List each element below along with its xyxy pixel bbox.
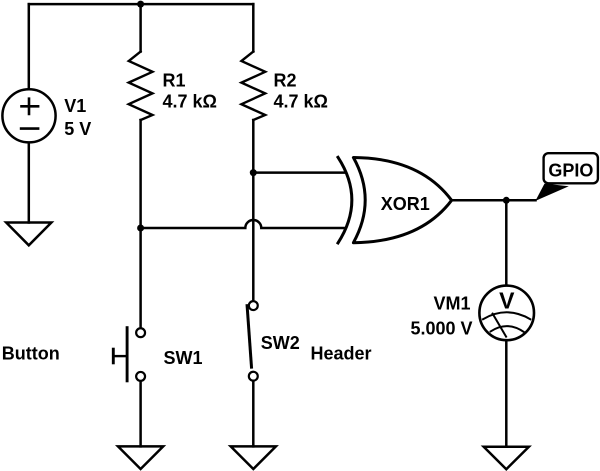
- svg-text:4.7 kΩ: 4.7 kΩ: [163, 92, 217, 112]
- resistor R2: [241, 52, 265, 121]
- wire XOR output: [452, 199, 536, 202]
- svg-text:R1: R1: [163, 70, 186, 90]
- node output junction: [503, 197, 510, 204]
- switch SW1 pushbutton contacts: [136, 328, 145, 337]
- ground SW1: [118, 446, 163, 469]
- wire R1 top: [139, 4, 142, 51]
- VM1 needle: [492, 313, 507, 338]
- ground VM1: [484, 447, 529, 470]
- V1 minus terminal mark: [20, 127, 40, 130]
- flag pointer GPIO: [535, 184, 568, 201]
- voltage source V1: [2, 89, 55, 142]
- svg-text:VM1: VM1: [433, 294, 470, 314]
- switch SW2 contacts: [249, 301, 258, 310]
- svg-text:5.000 V: 5.000 V: [410, 318, 472, 338]
- svg-text:XOR1: XOR1: [381, 194, 430, 214]
- svg-text:SW1: SW1: [164, 348, 203, 368]
- SW2 lever: [247, 304, 252, 368]
- svg-text:SW2: SW2: [261, 333, 300, 353]
- ground SW2: [231, 446, 276, 469]
- wire V1 bottom: [28, 143, 31, 223]
- wire top rail from V1 to R2: [29, 3, 254, 6]
- svg-text:Button: Button: [2, 344, 60, 364]
- node R2 / top input wire junction: [250, 169, 257, 176]
- wire R2 top: [252, 4, 255, 51]
- GPIO label box: [544, 153, 598, 183]
- voltmeter VM1: [479, 286, 534, 341]
- wire R1 to SW1: [139, 120, 142, 327]
- wire to VM1: [505, 200, 508, 284]
- svg-text:R2: R2: [274, 70, 297, 90]
- SW1 actuator: [126, 326, 129, 382]
- svg-text:5 V: 5 V: [64, 119, 91, 139]
- wire SW1 to ground: [139, 382, 142, 446]
- XOR1 extra input arc: [338, 157, 352, 243]
- svg-text:V1: V1: [64, 96, 86, 116]
- resistor R1: [129, 52, 153, 121]
- VM1 meter scale arcs: [483, 312, 530, 319]
- node top rail / R1 junction: [137, 1, 144, 8]
- wire XOR bottom input with hop over R2: [141, 220, 345, 228]
- svg-text:V: V: [499, 287, 515, 313]
- wire R2 to SW2: [252, 120, 255, 300]
- ground V1: [6, 223, 51, 246]
- wire VM1 bottom: [505, 341, 508, 446]
- wire V1 top: [28, 4, 31, 89]
- svg-text:GPIO: GPIO: [548, 160, 593, 180]
- XOR gate XOR1 body: [353, 158, 451, 243]
- svg-text:Header: Header: [311, 344, 372, 364]
- svg-text:4.7 kΩ: 4.7 kΩ: [274, 92, 328, 112]
- wire XOR top input: [253, 171, 344, 174]
- wire SW2 to ground: [252, 382, 255, 447]
- V1 plus terminal mark: [20, 97, 39, 115]
- node R1 / bottom input wire junction: [137, 225, 144, 232]
